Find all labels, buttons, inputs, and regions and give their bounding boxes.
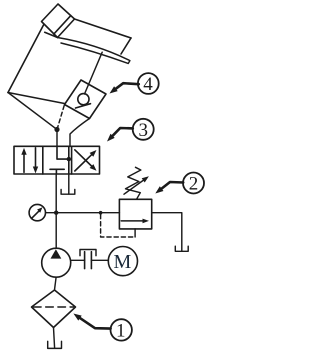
valve centre box P stub	[55, 169, 57, 174]
coupling bar right	[90, 252, 92, 269]
cylinder barrel bottom edge	[8, 93, 65, 104]
valve centre box A-B link	[57, 146, 69, 159]
wire valve T port to tank	[68, 174, 70, 194]
label 4 leader arrow	[116, 83, 139, 89]
pump triangle	[51, 249, 62, 258]
cylinder rod end face	[121, 38, 131, 54]
tank symbol under relief valve	[175, 246, 188, 251]
valve right box cross arrow 1	[75, 155, 92, 171]
svg-text:4: 4	[143, 74, 153, 95]
relief valve adjust arrow	[124, 180, 143, 194]
label 3 circle	[133, 119, 154, 140]
coupling bar left	[84, 252, 86, 269]
check valve seat	[76, 104, 91, 108]
node pilot junction dot	[99, 211, 103, 215]
tank symbol under filter	[48, 341, 62, 348]
pump P1 circle	[42, 248, 71, 277]
wire cylinder cap port to node A	[8, 93, 57, 130]
label 3 leader arrow	[113, 128, 133, 136]
main pressure line horizontal	[46, 212, 120, 214]
wire valve P port down to pump	[55, 174, 57, 248]
tank symbol under valve	[61, 190, 75, 195]
relief pilot stub	[134, 229, 136, 237]
cylinder barrel top edge stub	[45, 32, 58, 37]
wire node A to valve A port	[56, 130, 58, 147]
cylinder barrel left face	[8, 25, 44, 93]
valve centre box blocked P bar	[50, 168, 64, 170]
relief pilot dashed line	[101, 215, 136, 238]
relief valve internal arrow	[121, 220, 143, 222]
coupling shaft right	[91, 259, 108, 261]
valve left box up arrow	[23, 154, 25, 172]
svg-text:3: 3	[138, 120, 148, 141]
filter dashed element	[34, 306, 74, 308]
motor M circle	[108, 247, 137, 276]
wire pump suction to filter	[55, 277, 57, 290]
label 4 circle	[138, 73, 159, 94]
check valve U4 square	[65, 80, 107, 119]
valve centre box B-T line	[68, 146, 70, 174]
svg-text:1: 1	[116, 321, 126, 342]
svg-text:2: 2	[189, 174, 199, 195]
label 2 leader arrow	[162, 182, 184, 189]
wire relief valve outlet to tank	[152, 213, 182, 251]
coupling shaft left	[71, 259, 85, 261]
label 1 leader arrow	[80, 318, 111, 329]
check valve ball	[78, 94, 89, 105]
cylinder piston line	[54, 16, 71, 34]
wire filter to tank	[54, 328, 55, 349]
directional valve V3 body	[14, 146, 100, 174]
node A junction dot	[54, 127, 59, 132]
valve divider right	[71, 146, 73, 174]
svg-text:M: M	[114, 251, 132, 273]
coupling bracket	[80, 250, 96, 256]
relief valve spring	[126, 167, 141, 199]
pilot dashed line to check valve	[57, 105, 65, 130]
valve left box down arrow	[35, 148, 37, 167]
label 2 circle	[183, 173, 204, 194]
cylinder rod	[58, 38, 130, 64]
cylinder cap square	[42, 4, 75, 38]
wire check valve to valve B port	[70, 119, 90, 147]
valve centre box junction dot	[67, 157, 71, 161]
node P junction dot	[54, 211, 58, 215]
relief valve V2 body	[119, 199, 151, 229]
wire cylinder rod port to check valve	[85, 52, 103, 94]
filter F1 diamond	[32, 290, 76, 328]
gauge needle	[31, 211, 39, 219]
label 1 circle	[111, 319, 132, 340]
cylinder barrel top edge	[75, 19, 132, 38]
valve right box cross arrow 2	[75, 150, 92, 166]
pressure gauge	[29, 204, 45, 220]
valve divider left	[42, 146, 44, 174]
